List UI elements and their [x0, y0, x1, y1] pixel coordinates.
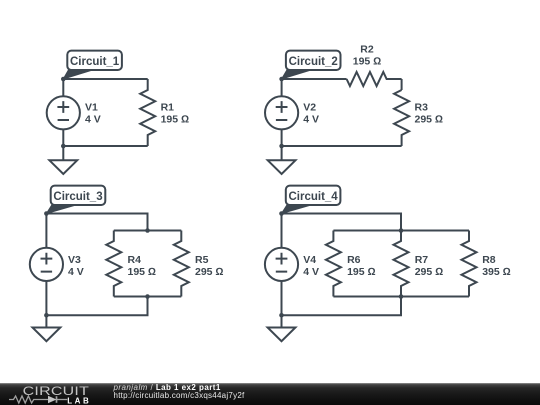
node: circuit 2 top junction — [279, 77, 284, 82]
svg-text:R7: R7 — [415, 254, 429, 266]
svg-text:R6: R6 — [347, 254, 361, 266]
voltage source V4 — [265, 214, 298, 316]
node: circuit 4 bottom junction — [279, 313, 284, 318]
resistor R2 — [347, 72, 402, 86]
svg-text:R4: R4 — [128, 254, 142, 266]
wire: circuit 2 bottom rail — [282, 145, 402, 147]
svg-text:4 V: 4 V — [85, 113, 101, 125]
label flag Circuit_2 — [286, 51, 341, 70]
wire: circuit 1 top rail — [63, 78, 147, 80]
svg-text:295 Ω: 295 Ω — [195, 266, 224, 278]
node: circuit 3 top junction — [44, 211, 49, 216]
footer bar — [0, 383, 540, 405]
node: circuit 1 top junction — [61, 77, 66, 82]
resistor R7 — [394, 231, 409, 297]
CircuitLab logo — [0, 383, 110, 405]
footer text line 1 — [114, 384, 221, 392]
svg-text:4 V: 4 V — [68, 266, 84, 278]
svg-text:Circuit_3: Circuit_3 — [53, 191, 102, 203]
ground: circuit 3 — [33, 315, 61, 341]
svg-text:295 Ω: 295 Ω — [415, 113, 444, 125]
node: circuit 3 upper bus junction — [145, 228, 150, 233]
node: circuit 4 top junction — [279, 211, 284, 216]
pointer wedge Circuit_2 — [282, 70, 311, 79]
wire: circuit 4 top rail — [282, 214, 402, 231]
wire: circuit 2 top rail — [282, 78, 347, 80]
voltage source V2 — [265, 79, 298, 146]
wire: circuit 3 bottom rail — [46, 297, 147, 316]
svg-text:4 V: 4 V — [303, 266, 319, 278]
resistor R3 — [394, 90, 409, 146]
wire: circuit 1 bottom rail — [63, 145, 147, 147]
ground: circuit 4 — [268, 315, 296, 341]
node: circuit 4 upper bus junction — [399, 228, 404, 233]
voltage source V3 — [30, 214, 63, 316]
svg-text:Circuit_2: Circuit_2 — [289, 56, 338, 68]
wire: circuit 4 upper bus — [333, 230, 469, 232]
label flag Circuit_4 — [286, 186, 341, 205]
ground: circuit 1 — [49, 146, 77, 174]
wire: circuit 4 bottom rail — [282, 297, 402, 316]
node: circuit 3 bottom junction — [44, 313, 49, 318]
ground: circuit 2 — [268, 146, 296, 174]
svg-text:4 V: 4 V — [303, 113, 319, 125]
svg-text:V3: V3 — [68, 254, 81, 266]
svg-text:R3: R3 — [415, 102, 429, 114]
wire: circuit 2 right drop — [401, 79, 403, 90]
resistor R1 — [140, 79, 155, 146]
svg-text:295 Ω: 295 Ω — [415, 266, 444, 278]
svg-text:R8: R8 — [482, 254, 496, 266]
svg-text:195 Ω: 195 Ω — [128, 266, 157, 278]
wire: circuit 3 lower bus — [114, 296, 182, 298]
node: circuit 4 lower bus junction — [399, 294, 404, 299]
pointer wedge Circuit_4 — [282, 205, 312, 214]
wire: circuit 3 upper bus — [114, 230, 182, 232]
wire: circuit 4 lower bus — [333, 296, 469, 298]
svg-text:V1: V1 — [85, 102, 98, 114]
resistor R8 — [462, 231, 477, 297]
voltage source V1 — [47, 79, 80, 146]
svg-text:V2: V2 — [303, 102, 316, 114]
resistor R6 — [326, 231, 341, 297]
svg-text:R1: R1 — [161, 102, 175, 114]
logo diode triangle — [48, 396, 57, 404]
wire: circuit 3 top rail — [46, 214, 147, 231]
label flag Circuit_1 — [67, 51, 122, 70]
svg-text:395 Ω: 395 Ω — [482, 266, 511, 278]
pointer wedge Circuit_3 — [46, 205, 76, 214]
pointer wedge Circuit_1 — [63, 70, 92, 79]
svg-text:R2: R2 — [360, 44, 374, 56]
node: circuit 1 bottom junction — [61, 144, 66, 149]
resistor R5 — [174, 231, 189, 297]
node: circuit 2 bottom junction — [279, 144, 284, 149]
label flag Circuit_3 — [51, 186, 106, 205]
svg-text:LAB: LAB — [67, 396, 91, 405]
svg-text:Circuit_1: Circuit_1 — [70, 56, 120, 68]
node: circuit 3 lower bus junction — [145, 294, 150, 299]
svg-text:V4: V4 — [303, 254, 316, 266]
resistor R4 — [106, 231, 121, 297]
logo doodle wire + resistor — [9, 396, 67, 403]
svg-text:195 Ω: 195 Ω — [353, 55, 382, 67]
svg-text:195 Ω: 195 Ω — [161, 113, 190, 125]
footer text line 2 — [114, 392, 245, 400]
svg-text:195 Ω: 195 Ω — [347, 266, 376, 278]
svg-text:Circuit_4: Circuit_4 — [288, 191, 338, 203]
svg-text:R5: R5 — [195, 254, 209, 266]
